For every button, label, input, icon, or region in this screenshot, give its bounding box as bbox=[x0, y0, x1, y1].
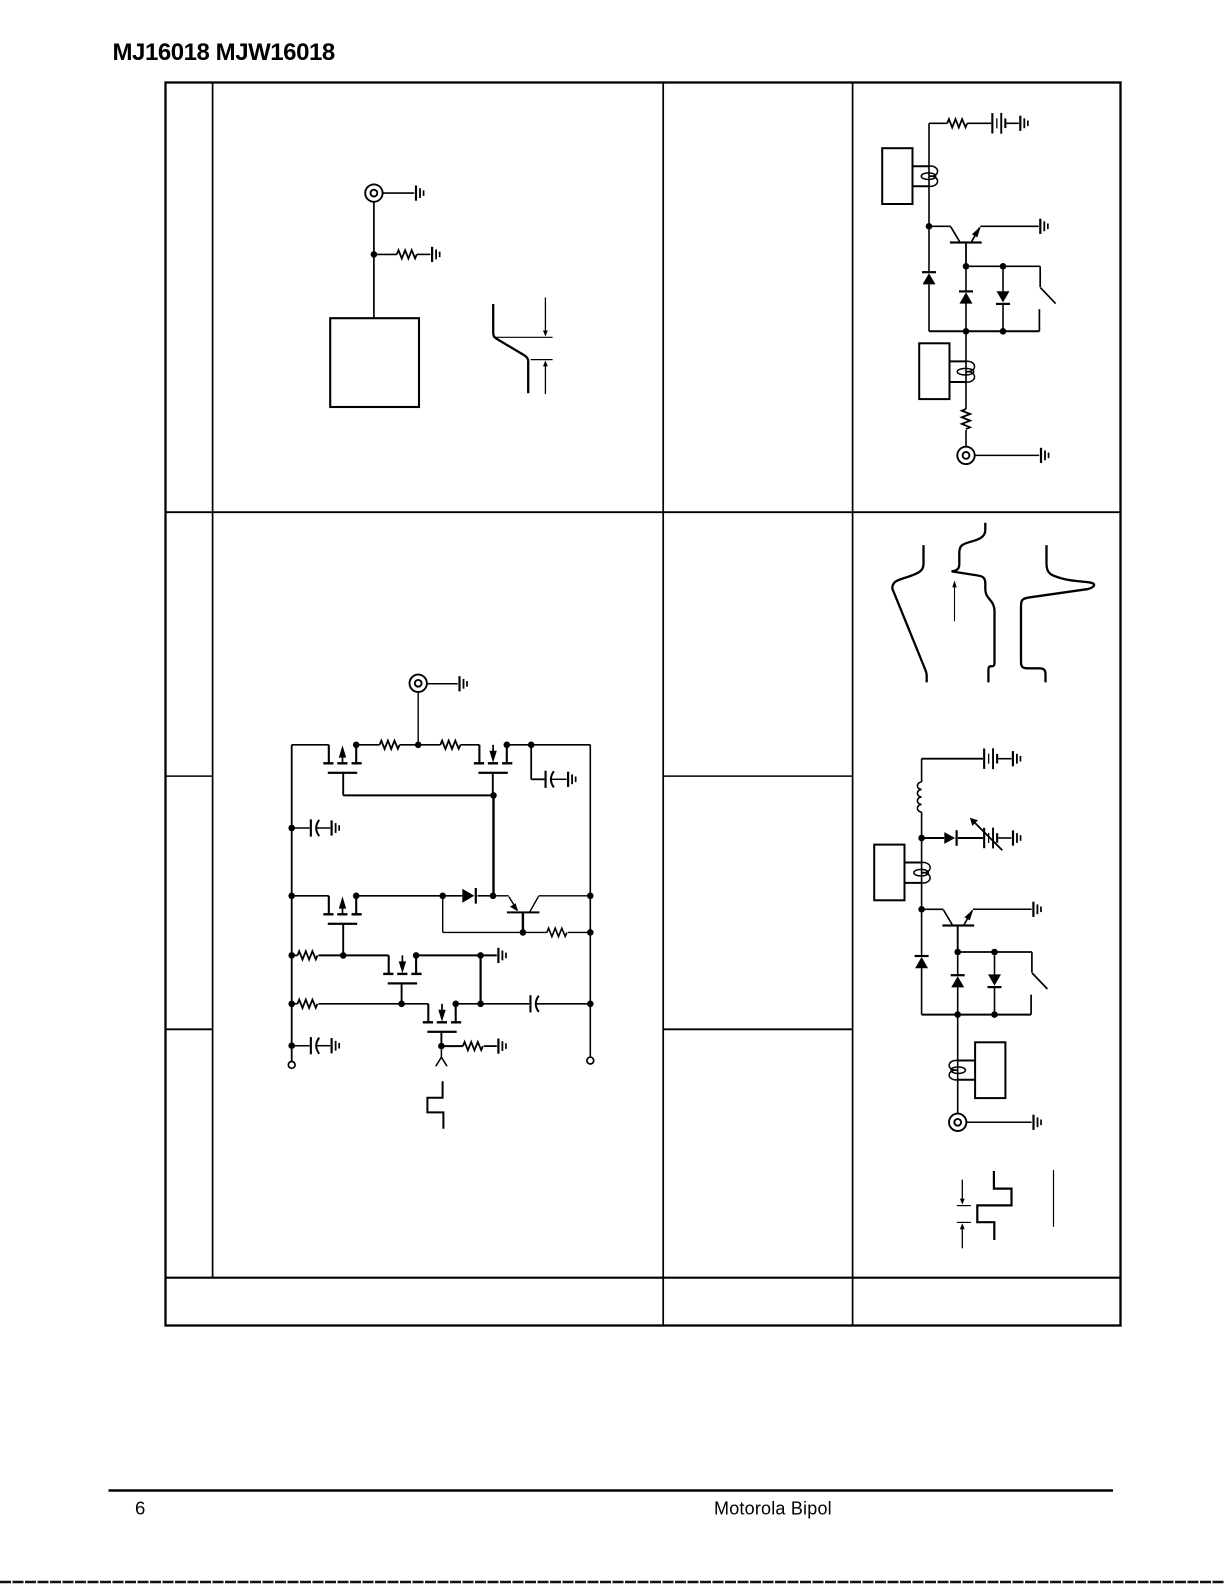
wire clamp bottom rail bbox=[929, 330, 1039, 332]
wire J1 to ground bbox=[383, 192, 415, 194]
node X bbox=[398, 1001, 405, 1008]
node A bbox=[371, 251, 378, 258]
node W bbox=[477, 952, 484, 959]
diode D3 bbox=[996, 291, 1010, 305]
wire T4 lead bottom bbox=[958, 1079, 975, 1081]
wire clamp top rail bbox=[966, 265, 1040, 267]
node E bbox=[963, 328, 970, 335]
wire D3 to bottom rail bbox=[1002, 305, 1004, 332]
resistor R2 bbox=[947, 119, 967, 127]
ground G9 bbox=[1032, 1115, 1041, 1130]
wire node H down to D5 bbox=[921, 913, 923, 956]
wire gate bus bbox=[343, 794, 493, 796]
terminal output J3 bbox=[949, 1114, 966, 1131]
wire node Q to D8 bbox=[443, 895, 463, 897]
wire Q1 emitter to ground bbox=[980, 225, 1038, 227]
resistor R6 bbox=[547, 928, 567, 936]
battery B2 bbox=[983, 748, 998, 769]
waveform curve left bbox=[892, 545, 926, 682]
table outer border bbox=[166, 83, 1121, 1326]
wire D2 to bottom rail bbox=[965, 303, 967, 331]
transformer coil T3 bbox=[914, 862, 930, 883]
wire node A to R1 bbox=[377, 253, 397, 255]
resistor R5 bbox=[440, 741, 460, 749]
wire D1 to bottom rail bbox=[928, 284, 930, 331]
wire M1 to R4 bbox=[356, 744, 379, 746]
svg-text:6: 6 bbox=[135, 1498, 145, 1519]
wire B2 to ground bbox=[998, 758, 1011, 760]
terminal pin plus bbox=[587, 1057, 594, 1064]
resistor R4 bbox=[380, 741, 400, 749]
left rail bbox=[291, 745, 293, 1062]
transistor M3 bbox=[323, 896, 361, 925]
wire Vcc rail to R2 bbox=[929, 122, 947, 124]
wire rail to L1 bbox=[921, 759, 923, 782]
wire clamp bottom rail 2 bbox=[922, 1014, 1032, 1016]
DUT box U1 bbox=[330, 318, 419, 407]
node supply node bbox=[415, 742, 422, 749]
wire node M cap branch bbox=[530, 745, 532, 780]
dimension tick bottom bbox=[957, 1221, 971, 1223]
wire R2 to battery B1 bbox=[967, 122, 991, 124]
wire Q2 emitter to ground bbox=[973, 908, 1032, 910]
wire T2 lead top bbox=[950, 360, 967, 362]
resistor R9 bbox=[463, 1042, 483, 1050]
node Z bbox=[438, 1043, 445, 1050]
switch S2 bbox=[1031, 952, 1047, 1015]
node U bbox=[587, 929, 594, 936]
wire M4 to node W bbox=[416, 954, 481, 956]
wire M3 to node Q bbox=[356, 895, 443, 897]
diode D2 bbox=[959, 290, 973, 303]
wire L1 to node G bbox=[921, 812, 923, 838]
wire node B down to D1 bbox=[928, 230, 930, 273]
node I bbox=[954, 949, 961, 956]
wire R9 to ground bbox=[484, 1045, 497, 1047]
wire top rail left bbox=[292, 744, 329, 746]
table column line 3 bbox=[852, 83, 854, 1326]
page bottom dashed line bbox=[0, 1581, 1225, 1584]
node M4 right bbox=[413, 952, 420, 959]
table row line 1 bbox=[166, 511, 1121, 513]
wire C4 to ground bbox=[316, 1045, 330, 1047]
diode D7 bbox=[988, 974, 1002, 988]
wire P5 to C4 bbox=[292, 1045, 310, 1047]
wire B1 to ground bbox=[1006, 122, 1018, 124]
ground G4 bbox=[1039, 219, 1049, 234]
transformer coil T4 bbox=[949, 1060, 965, 1080]
terminal pin minus bbox=[288, 1062, 295, 1069]
ground G13 bbox=[497, 948, 507, 963]
battery B1 bbox=[991, 113, 1006, 134]
ground G7 bbox=[1012, 830, 1022, 845]
wire R4 to node bbox=[400, 744, 419, 746]
arrow fall dim up bbox=[543, 360, 548, 394]
node B bbox=[926, 223, 933, 230]
wire to C1 bbox=[531, 778, 544, 780]
dimension line top bbox=[493, 336, 552, 338]
ground G6 bbox=[1012, 751, 1022, 766]
node H bbox=[918, 906, 925, 913]
transistor M4 bbox=[383, 955, 421, 984]
battery B3 variable bbox=[983, 828, 998, 849]
wire D7 to bottom rail 2 bbox=[994, 988, 996, 1015]
capacitor C2 bbox=[310, 819, 319, 836]
wire node Q drop bbox=[442, 896, 444, 933]
wire Q1 base lead bbox=[965, 244, 967, 267]
wire supply rail bbox=[922, 758, 983, 760]
node S bbox=[587, 893, 594, 900]
wire sense vertical 2 bbox=[957, 1015, 959, 1114]
M4 gate lead bbox=[401, 983, 403, 1003]
wire node J down to D7 bbox=[994, 955, 996, 974]
wire P1 to C2 bbox=[292, 827, 310, 829]
wire J2 to ground bbox=[975, 454, 1039, 456]
arrow step dim down bbox=[960, 1180, 965, 1205]
wire R5 to M2 bbox=[460, 744, 479, 746]
dimension line bottom bbox=[531, 359, 553, 361]
wire node I down to D6 bbox=[957, 955, 959, 975]
transformer box T1 bbox=[882, 148, 912, 204]
node P2 bbox=[288, 893, 295, 900]
wire T4 lead top bbox=[958, 1060, 975, 1062]
capacitor C1 bbox=[545, 771, 554, 788]
svg-text:MJ16018 MJW16018: MJ16018 MJW16018 bbox=[113, 39, 335, 66]
M1 gate lead bbox=[342, 773, 344, 796]
arrow step dim up bbox=[960, 1223, 965, 1248]
ground G2 bbox=[431, 247, 441, 262]
wire Q2 base lead bbox=[957, 927, 959, 952]
wire C3 to rail bbox=[536, 1003, 590, 1005]
wire T3 lead top bbox=[905, 862, 922, 864]
ground G1 bbox=[415, 186, 425, 201]
transistor M5 bbox=[423, 1004, 461, 1033]
node M bbox=[528, 742, 535, 749]
wire node D down to D3 bbox=[1002, 270, 1004, 292]
table row line 2b bbox=[663, 775, 852, 777]
wire P3 to R7 bbox=[292, 954, 298, 956]
transformer box T2 bbox=[919, 343, 949, 399]
node M2 drain bbox=[504, 742, 511, 749]
capacitor C4 bbox=[310, 1037, 319, 1054]
resistor R8 bbox=[298, 1000, 318, 1008]
wire row2 left bbox=[292, 895, 329, 897]
transformer coil T1 bbox=[921, 166, 937, 186]
transistor Q3 bbox=[493, 896, 539, 914]
node M5 right bbox=[452, 1001, 459, 1008]
wire J3 to ground bbox=[967, 1121, 1032, 1123]
ground G3 bbox=[1019, 116, 1028, 131]
wire T1 lead bottom bbox=[913, 185, 930, 187]
adjust arrow B3 bbox=[970, 818, 1002, 850]
wire Q3 collector to rail bbox=[539, 895, 591, 897]
ground G8 bbox=[1032, 902, 1041, 917]
wire gate bus drop bbox=[492, 795, 494, 895]
ground G5 bbox=[1040, 448, 1049, 463]
Q3 base lead bbox=[522, 913, 524, 932]
M2 gate lead bbox=[492, 773, 494, 796]
wire W drop bbox=[480, 955, 482, 1003]
transistor M2 bbox=[474, 745, 512, 774]
wire V to M4 bbox=[343, 954, 389, 956]
diode D6 bbox=[951, 974, 965, 987]
wire C1 to ground bbox=[551, 778, 566, 780]
wire node to R5 bbox=[418, 744, 440, 746]
node J bbox=[991, 949, 998, 956]
step waveform bbox=[977, 1171, 1011, 1240]
capacitor C3 bbox=[529, 995, 538, 1012]
diode D1 bbox=[922, 271, 936, 284]
node T bbox=[520, 929, 527, 936]
footer rule bbox=[109, 1489, 1114, 1492]
wire R3 to J2 bbox=[965, 430, 967, 446]
M3 gate lead bbox=[342, 924, 344, 956]
terminal supply J4 bbox=[410, 675, 427, 692]
node Y bbox=[587, 1001, 594, 1008]
wire D4 to B3 bbox=[958, 837, 983, 839]
wire R6 to rail bbox=[568, 931, 590, 933]
node P4 bbox=[288, 1001, 295, 1008]
transistor Q2 bbox=[922, 909, 975, 926]
wire node G to D4 bbox=[922, 837, 945, 839]
node N bbox=[490, 792, 497, 799]
node Q bbox=[439, 893, 446, 900]
table column line 1 bbox=[212, 83, 214, 1278]
ground G11 bbox=[567, 772, 577, 787]
ground G15 bbox=[331, 1038, 341, 1053]
wire collector feed vertical bbox=[928, 123, 930, 226]
node P3 bbox=[288, 952, 295, 959]
reference line bbox=[1053, 1170, 1055, 1227]
wire M5 to W2 bbox=[456, 1003, 481, 1005]
waveform curve middle bbox=[952, 523, 995, 683]
transistor M1 bbox=[323, 745, 361, 774]
wire clamp top rail 2 bbox=[958, 951, 1032, 953]
fall-time waveform bbox=[493, 304, 528, 393]
wire D5 to bottom rail 2 bbox=[921, 968, 923, 1014]
node C bbox=[963, 263, 970, 270]
table row line 3b bbox=[663, 1028, 852, 1030]
wire C2 to ground bbox=[316, 827, 330, 829]
wire T2 lead bottom bbox=[950, 381, 967, 383]
switch S1 bbox=[1039, 266, 1055, 331]
wire J1 down to DUT box bbox=[373, 202, 375, 318]
terminal input J1 bbox=[365, 184, 382, 201]
node L bbox=[991, 1011, 998, 1018]
resistor R3 bbox=[962, 409, 970, 429]
terminal output J2 bbox=[957, 447, 974, 464]
transformer coil T2 bbox=[957, 361, 974, 382]
node G bbox=[918, 835, 925, 842]
table row line 3a bbox=[166, 1028, 213, 1030]
ground G10 bbox=[458, 676, 468, 691]
dimension tick top bbox=[957, 1205, 971, 1207]
generator symbol bbox=[436, 1049, 447, 1066]
wire P4 to R8 bbox=[292, 1003, 298, 1005]
node D bbox=[1000, 263, 1007, 270]
transistor Q1 bbox=[929, 226, 982, 243]
wire D6 to bottom rail 2 bbox=[957, 987, 959, 1014]
drive step waveform bbox=[427, 1081, 443, 1129]
diode D5 bbox=[915, 955, 929, 968]
wire R7 to gate node bbox=[319, 954, 344, 956]
node P1 bbox=[288, 825, 295, 832]
wire X to M5 bbox=[402, 1003, 429, 1005]
wire J4 to ground bbox=[427, 683, 458, 685]
resistor R7 bbox=[298, 951, 318, 959]
wire top rail right bbox=[507, 744, 591, 746]
wire W2 to C3 bbox=[481, 1003, 530, 1005]
wire row T left bbox=[443, 931, 523, 933]
svg-text:Motorola Bipol: Motorola Bipol bbox=[714, 1499, 832, 1519]
resistor R1 bbox=[397, 250, 417, 258]
wire W to ground bbox=[481, 954, 497, 956]
node M3 drain bbox=[353, 893, 360, 900]
wire B3 to ground bbox=[998, 837, 1011, 839]
wire D8 to node R bbox=[478, 895, 493, 897]
node W2 bbox=[477, 1001, 484, 1008]
node R bbox=[490, 893, 497, 900]
waveform curve right bbox=[1021, 545, 1094, 682]
diode D4 bbox=[944, 830, 957, 846]
node V bbox=[340, 952, 347, 959]
M5 gate lead bbox=[440, 1032, 442, 1046]
wire J4 down to rail bbox=[417, 692, 419, 745]
wire base drive vertical bbox=[921, 838, 923, 909]
node M1 drain bbox=[353, 742, 360, 749]
wire T to R6 bbox=[523, 931, 547, 933]
right rail bbox=[589, 745, 591, 1057]
wire Z to R9 bbox=[441, 1045, 463, 1047]
table column line 2 bbox=[662, 83, 664, 1326]
diode D8 bbox=[462, 888, 477, 904]
table row line 2a bbox=[166, 775, 213, 777]
ground G12 bbox=[331, 820, 341, 835]
wire T3 lead bottom bbox=[905, 882, 922, 884]
wire R1 to ground bbox=[417, 253, 431, 255]
transformer box T4 bbox=[975, 1042, 1005, 1098]
wire emitter sense vertical bbox=[965, 331, 967, 409]
node K bbox=[954, 1011, 961, 1018]
wire node C down to D2 bbox=[965, 270, 967, 292]
arrow storage time bbox=[952, 580, 956, 621]
wire R8 to node X bbox=[319, 1003, 402, 1005]
transformer box T3 bbox=[874, 845, 904, 901]
wire T1 lead top bbox=[913, 165, 930, 167]
inductor L1 bbox=[917, 782, 921, 812]
table row line 4 bbox=[166, 1277, 1121, 1279]
node P5 bbox=[288, 1042, 295, 1049]
node F bbox=[1000, 328, 1007, 335]
arrow fall dim down bbox=[543, 298, 548, 337]
ground G14 bbox=[497, 1039, 507, 1054]
